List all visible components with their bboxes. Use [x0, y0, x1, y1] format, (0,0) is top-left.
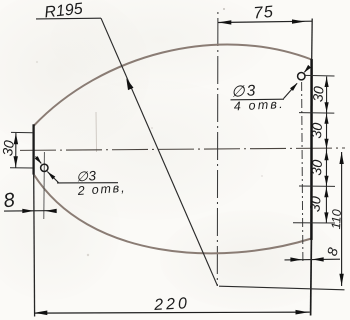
75 right arrow [292, 19, 305, 23]
hole C1 left (d3) [41, 164, 48, 171]
stray pencil mark [95, 112, 98, 152]
left flat edge [32, 124, 34, 174]
hole C1 diameter stroke upper [36, 157, 42, 164]
220 left arrow [34, 311, 47, 316]
bottom extension line for 110 [219, 286, 345, 290]
dimension 8 right line [285, 258, 341, 261]
dimension 8 left line [4, 210, 57, 213]
220 right arrow [296, 310, 309, 315]
tick y76 [305, 74, 335, 77]
right flat edge [310, 59, 313, 240]
110 bottom arrow [339, 274, 343, 286]
R195 arrowhead [126, 78, 133, 90]
svg-text:30: 30 [308, 122, 325, 139]
hole C1 label shelf [57, 182, 118, 184]
hole C2 label shelf [231, 98, 285, 101]
right hole column centerline [302, 82, 303, 263]
hole C2 leader [284, 83, 298, 98]
hole C2 right (d3) [298, 73, 305, 80]
left 30 dimension line [15, 133, 17, 168]
tick y113 [299, 112, 334, 115]
svg-text:4 отв.: 4 отв. [233, 97, 285, 114]
hole C1 leader [47, 172, 58, 183]
svg-text:75: 75 [253, 3, 275, 23]
tick y223 [293, 222, 335, 224]
right edge extension line down to 220 dim [310, 239, 313, 316]
chain arrows seg1 [325, 77, 329, 87]
vertical centerline [216, 8, 219, 286]
svg-text:30: 30 [0, 139, 17, 157]
left 30 tick top [11, 131, 33, 133]
left 30 tick bottom [10, 167, 33, 169]
right edge extension line up to 75 dim [311, 19, 314, 61]
lower arc of lens outline [34, 174, 312, 253]
left edge extension line down to 220 dim [33, 174, 36, 317]
110 top arrow [339, 152, 343, 164]
30-chain dimension line [325, 77, 327, 223]
chain arrows seg4 [324, 187, 328, 197]
svg-text:30: 30 [309, 85, 326, 102]
horizontal centerline [20, 148, 345, 150]
svg-text:30: 30 [308, 159, 325, 176]
svg-text:220: 220 [153, 295, 191, 314]
tick y186 [299, 185, 335, 187]
dimension R195 leader [101, 18, 218, 286]
dimension R195 shelf [36, 17, 101, 20]
chain arrows seg2 [324, 114, 328, 124]
75 left arrow [218, 20, 231, 24]
dimension 75 line [218, 21, 312, 22]
left hole centerline [43, 152, 46, 219]
hole C2 diameter stroke upper [304, 66, 309, 72]
upper arc of lens outline [34, 44, 312, 126]
svg-text:30: 30 [306, 195, 323, 212]
dimension 110 line [341, 152, 343, 286]
chain arrows seg3 [324, 150, 328, 160]
dimension 220 line [34, 312, 310, 313]
faint paper specks [223, 8, 225, 10]
svg-text:110: 110 [329, 209, 344, 230]
